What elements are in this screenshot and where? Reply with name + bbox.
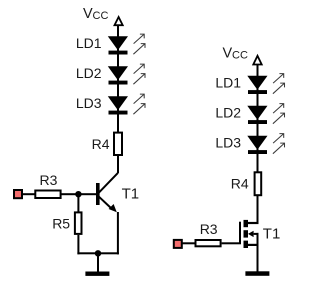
mosfet T1 gate line (right) <box>239 222 241 244</box>
svg-text:CC: CC <box>93 10 109 22</box>
wire R4 to collector (left) <box>117 156 119 173</box>
wire VCC to LED chain (left) <box>117 25 119 132</box>
LD1 emission arrows (left) <box>133 34 145 54</box>
transistor T1 base bar (left) <box>96 183 100 205</box>
junction node base (left) <box>75 191 81 197</box>
VCC arrow symbol (left) <box>115 17 123 25</box>
resistor R5 (left) <box>75 212 82 234</box>
mosfet T1 body tick (right) <box>244 230 249 237</box>
wire R3 to base (left) <box>61 193 97 195</box>
wire terminal to R3 (left) <box>22 193 35 195</box>
LED LD2 (right) <box>247 106 267 124</box>
svg-text:R3: R3 <box>200 221 218 237</box>
svg-text:LD1: LD1 <box>76 35 102 51</box>
LD1 emission arrows (right) <box>273 74 285 94</box>
LED LD3 (right) <box>247 136 267 154</box>
transistor T1 emitter lead with arrow (left) <box>99 196 117 212</box>
mosfet T1 drain connection (right) <box>248 222 259 224</box>
LED LD1 (left) <box>108 36 128 54</box>
transistor T1 collector lead (left) <box>98 173 118 194</box>
wire terminal to R3 (right) <box>182 242 196 244</box>
ground symbol (left) <box>85 272 109 276</box>
ground symbol (right) <box>245 271 269 276</box>
svg-text:CC: CC <box>232 49 248 61</box>
svg-text:R3: R3 <box>40 172 58 188</box>
wire emitter down (left) <box>117 212 119 254</box>
junction node ground (left) <box>95 250 101 256</box>
svg-text:LD1: LD1 <box>215 75 241 91</box>
LD2 emission arrows (left) <box>133 64 145 84</box>
svg-text:R4: R4 <box>231 175 249 191</box>
svg-text:T1: T1 <box>122 186 140 203</box>
VCC arrow symbol (right) <box>253 56 261 65</box>
LED LD1 (right) <box>247 76 267 94</box>
svg-text:LD3: LD3 <box>215 135 241 151</box>
wire node to R5 (left) <box>77 194 79 212</box>
wire source to ground (right) <box>257 245 259 272</box>
wire VCC to LED chain (right) <box>257 65 259 172</box>
LED LD2 (left) <box>108 66 128 84</box>
mosfet T1 drain tick (right) <box>244 220 249 227</box>
net VCC label (left) <box>83 6 108 22</box>
wire R5 to bottom rail (left) <box>77 235 79 254</box>
svg-text:R5: R5 <box>52 216 70 232</box>
LD3 emission arrows (left) <box>133 94 145 114</box>
LD3 emission arrows (right) <box>273 134 285 154</box>
svg-text:LD2: LD2 <box>215 105 241 121</box>
bottom rail wire (left) <box>77 252 119 254</box>
input terminal square (left) <box>14 190 22 198</box>
resistor R4 (left) <box>114 133 122 155</box>
LED LD3 (left) <box>108 96 128 114</box>
mosfet T1 body arrow (right) <box>248 231 259 245</box>
svg-text:V: V <box>83 6 93 22</box>
resistor R4 (right) <box>255 172 262 195</box>
resistor R3 (left) <box>35 191 60 199</box>
wire R4 to drain (right) <box>257 196 259 224</box>
svg-text:T1: T1 <box>263 226 281 243</box>
input terminal square (right) <box>174 240 182 248</box>
LD2 emission arrows (right) <box>273 104 285 124</box>
svg-text:LD3: LD3 <box>76 95 102 111</box>
resistor R3 (right) <box>196 240 221 246</box>
wire R3 to gate (right) <box>222 242 241 244</box>
svg-text:V: V <box>223 46 233 62</box>
svg-text:LD2: LD2 <box>76 65 102 81</box>
mosfet T1 source tick (right) <box>244 241 249 248</box>
ground stub (left) <box>97 253 99 271</box>
net VCC label (right) <box>223 46 248 62</box>
mosfet T1 source connection (right) <box>248 244 259 246</box>
svg-text:R4: R4 <box>92 136 110 152</box>
